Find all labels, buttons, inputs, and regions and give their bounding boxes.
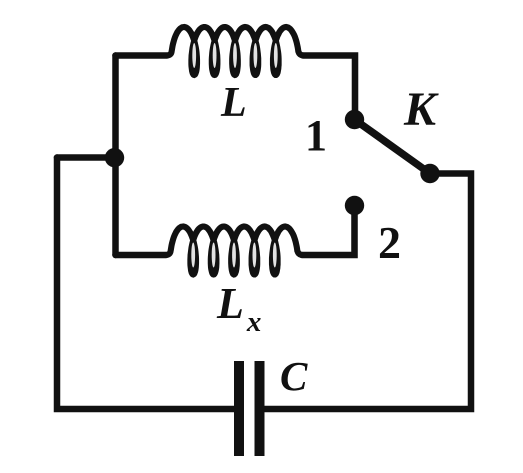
label K — [404, 86, 436, 134]
label Lx — [217, 282, 261, 337]
label C — [280, 356, 307, 397]
inductor L loop gaps — [192, 43, 277, 68]
label 2 — [378, 220, 401, 266]
wire switch pole to right rail down to bottom — [265, 174, 472, 410]
node junction dot — [105, 148, 124, 167]
inductor L with top wire and wire down to switch contact 1 — [116, 27, 356, 112]
capacitor C left plate — [234, 361, 244, 456]
capacitor C right plate — [255, 361, 265, 456]
wire Lx left lead overlay — [116, 252, 167, 259]
switch K blade — [355, 120, 431, 174]
wire junction to left rail — [57, 154, 116, 161]
node switch contact 2 — [345, 196, 364, 215]
label 1 — [305, 114, 327, 158]
wire top-left vertical (node A branch) — [112, 56, 119, 256]
wire Lx right lead to contact 2 — [302, 212, 355, 255]
wire left rail down and bottom-left to capacitor — [57, 158, 234, 410]
wire coil L to corner — [303, 56, 355, 113]
inductor Lx with leads — [116, 212, 355, 275]
node switch pole — [420, 164, 439, 183]
label L — [221, 82, 247, 124]
inductor Lx loop gaps — [191, 243, 276, 268]
node switch contact 1 — [345, 110, 364, 129]
wire top segment thick overlay — [116, 52, 168, 59]
